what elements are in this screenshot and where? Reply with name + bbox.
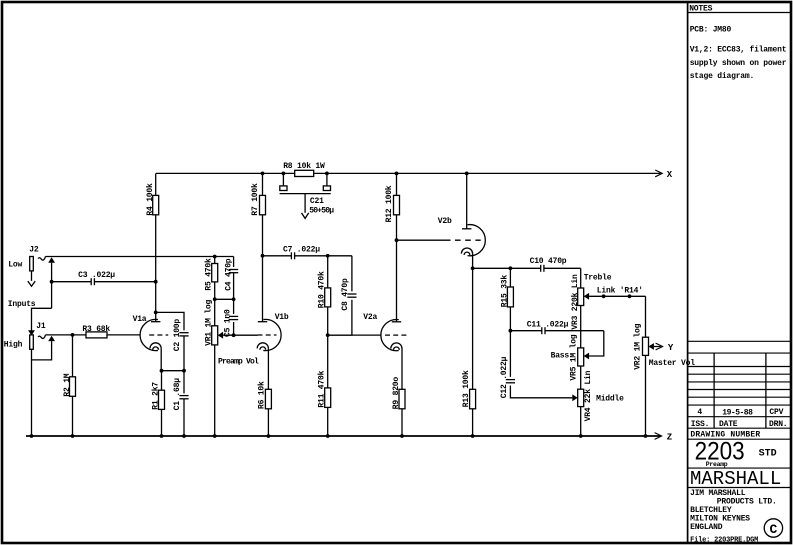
svg-text:VR5 1M log: VR5 1M log (570, 334, 579, 380)
node X supply rail wire (156, 172, 661, 174)
node C21 tap junctions (282, 172, 329, 176)
svg-text:Bass: Bass (551, 352, 570, 361)
wire R15 top (509, 268, 511, 287)
wire C4 bottom (233, 273, 235, 299)
triode V1a (140, 319, 168, 350)
jack J2 tip contact (38, 257, 45, 261)
notes panel separator (687, 2, 689, 543)
node C7 junction (261, 254, 265, 258)
wire VR3 wiper to VR2 (645, 296, 647, 337)
svg-text:V2b: V2b (438, 217, 452, 226)
svg-text:R2 1M: R2 1M (63, 373, 72, 396)
svg-text:R5 470k: R5 470k (205, 258, 214, 291)
jack J2 label (29, 245, 39, 254)
CPV cell (769, 408, 783, 417)
Preamp label (706, 461, 728, 468)
capacitor C3 (52, 271, 156, 285)
capacitor C21 plate (280, 193, 331, 195)
capacitor C11 (510, 320, 603, 334)
resistor R5 (205, 258, 218, 291)
node X arrow (655, 170, 662, 177)
svg-text:MARSHALL: MARSHALL (690, 468, 781, 490)
capacitor C12 (500, 356, 515, 398)
triode V2b (455, 225, 485, 256)
capacitor C2 (173, 319, 188, 352)
resistor R12 (385, 185, 400, 222)
wire V1a cathode (160, 348, 162, 370)
svg-text:VR1 1M log: VR1 1M log (205, 299, 214, 345)
wire cathode to C1 (162, 369, 186, 373)
wire V1b cathode (267, 348, 269, 389)
node C7/R10/C8 junction (326, 254, 330, 258)
wire R12 to V2a anode (396, 215, 398, 322)
capacitor C7 (263, 246, 328, 260)
potentiometer VR4 wiper (572, 394, 577, 401)
node Y wire (654, 346, 661, 348)
resistor R8 (283, 162, 325, 177)
node Z label (667, 433, 672, 443)
svg-text:Treble: Treble (584, 273, 612, 282)
svg-text:R11 470k: R11 470k (318, 370, 327, 407)
ISS label (691, 420, 709, 429)
wire V2b cathode (472, 254, 474, 390)
wire R10 top (327, 256, 329, 288)
node R2 ground junction (71, 434, 75, 438)
svg-text:High: High (4, 341, 23, 350)
jack J2 Low label (8, 261, 22, 270)
svg-text:supply shown on power: supply shown on power (690, 59, 787, 68)
svg-text:R9 820o: R9 820o (392, 377, 401, 410)
triode V1a label (133, 315, 147, 324)
svg-text:Link: Link (597, 286, 616, 295)
Bass label (551, 352, 570, 361)
svg-text:4: 4 (697, 408, 702, 417)
svg-text:C11 .022µ: C11 .022µ (527, 320, 569, 329)
wire to V2a grid (328, 334, 381, 336)
wire VR2 bottom (644, 355, 648, 438)
svg-text:Preamp Vol: Preamp Vol (218, 357, 259, 366)
svg-text:R12 100k: R12 100k (385, 185, 394, 222)
svg-text:R6 10k: R6 10k (258, 381, 267, 409)
svg-text:stage diagram.: stage diagram. (690, 72, 754, 81)
wire J2 tip to R5/C4 (45, 256, 233, 258)
jack J2 switch contact arrow (48, 257, 55, 262)
capacitor C8 (341, 278, 357, 311)
resistor R15 (500, 275, 513, 308)
wire R11 top (327, 335, 329, 388)
node J1 ground junction (30, 434, 34, 438)
svg-text:C1 .68µ: C1 .68µ (173, 378, 182, 411)
Master Vol label (649, 359, 695, 368)
svg-text:V1,2: ECC83, filament: V1,2: ECC83, filament (690, 46, 787, 55)
svg-text:Low: Low (8, 261, 22, 270)
node X label (667, 170, 673, 180)
wire R15 bottom (509, 307, 511, 331)
svg-text:DATE: DATE (719, 420, 738, 429)
wire C8 top (328, 256, 352, 292)
potentiometer VR4 (578, 370, 594, 421)
resistor R4 (146, 183, 159, 216)
jack J1 label (36, 322, 46, 331)
triode V2b label (438, 217, 452, 226)
node R15 top junction (509, 266, 513, 270)
potentiometer VR1 (205, 299, 218, 345)
note PCB (690, 26, 732, 35)
node Y label (668, 343, 674, 353)
copyright symbol (764, 519, 782, 537)
node cathode/tone junction (471, 266, 475, 270)
svg-text:R3 68k: R3 68k (82, 325, 110, 334)
wire C2 branch (156, 312, 184, 330)
wire jog to J1 (32, 308, 52, 331)
node R15/C11/C12 junction (509, 329, 513, 333)
triode V2a label (363, 313, 377, 322)
svg-text:C21: C21 (310, 197, 324, 206)
wire VR3 wiper link R14 (589, 295, 645, 297)
svg-text:C10 470p: C10 470p (530, 257, 567, 266)
svg-text:PCB: JM80: PCB: JM80 (690, 26, 732, 35)
potentiometer VR2 (633, 323, 648, 369)
resistor R3 (82, 325, 110, 338)
capacitor C4 (224, 258, 238, 291)
wire C21 right tap (326, 173, 328, 186)
title block row lines (688, 341, 792, 487)
capacitor C5 (224, 309, 239, 337)
resistor R1 (151, 382, 164, 410)
wire C5 top (233, 299, 235, 314)
DRN label (769, 420, 787, 429)
node C3 to anode junction (154, 280, 158, 284)
node cathode junction V1a (160, 369, 164, 373)
STD label (759, 449, 777, 460)
wire VR1 bottom (213, 345, 217, 438)
address PRODUCTS LTD (717, 497, 777, 506)
address BLETCHLEY (690, 506, 732, 515)
jack J2 (28, 257, 35, 287)
address JIM MARSHALL (690, 489, 746, 498)
wire VR3 top (580, 268, 582, 288)
node R2 junction (71, 333, 75, 337)
date cell (722, 408, 753, 417)
drawing number 2203 (695, 438, 745, 466)
wire R9 bottom (400, 409, 404, 438)
svg-text:C5 1n0: C5 1n0 (224, 309, 233, 337)
potentiometer VR5 wiper (584, 353, 589, 360)
wire VR1 wiper to V1b grid (223, 334, 258, 336)
wire C4 corner (233, 257, 235, 268)
svg-text:19-5-88: 19-5-88 (722, 408, 753, 417)
node R10/C8/grid junction (326, 333, 330, 337)
wire cathode to C10/VR3 (473, 267, 581, 269)
svg-text:C7 .022µ: C7 .022µ (283, 246, 320, 255)
capacitor C21 value label (309, 197, 334, 216)
wire R1 bottom (160, 409, 164, 438)
issue number cell (697, 408, 702, 417)
node V2b anode rail junction (465, 172, 469, 176)
wire R13 bottom (471, 409, 475, 438)
wire R12 top (396, 173, 398, 195)
wire J2 switch down (51, 263, 53, 309)
Inputs label (8, 300, 36, 309)
svg-text:C2 100p: C2 100p (173, 319, 182, 352)
wire R7 top (262, 173, 264, 195)
svg-text:C: C (769, 522, 777, 537)
svg-text:R4 100k: R4 100k (146, 183, 155, 216)
svg-text:Inputs: Inputs (8, 300, 36, 309)
wire J1 tip to R3 (45, 334, 86, 336)
wire R5 to C4 bottom (215, 298, 234, 300)
resistor R10 (318, 271, 331, 308)
DATE label (719, 420, 738, 429)
svg-text:VR4 22k Lin: VR4 22k Lin (584, 370, 593, 421)
potentiometer VR2 wiper (649, 343, 654, 350)
svg-text:VR3 220k Lin: VR3 220k Lin (571, 274, 580, 330)
address ENGLAND (690, 523, 723, 532)
capacitor C21 terminal pads (280, 186, 331, 191)
wire V2b grid (397, 239, 451, 241)
svg-text:'R14': 'R14' (620, 286, 643, 295)
node Z ground rail wire (26, 435, 660, 437)
note filament line1 (690, 46, 787, 55)
wire V2b anode (466, 173, 468, 228)
wire C2 bottom (183, 336, 185, 371)
wire C1 bottom (182, 399, 186, 438)
node link R14 right (628, 294, 632, 298)
triode V1b label (275, 313, 289, 322)
wire R1 top (161, 371, 163, 391)
svg-text:ENGLAND: ENGLAND (690, 523, 723, 532)
svg-text:C12 .022µ: C12 .022µ (500, 356, 509, 398)
wire VR3 bottom to VR5 (580, 306, 582, 348)
svg-text:R1 2k7: R1 2k7 (151, 382, 160, 410)
Middle label (596, 394, 624, 403)
wire arrow onto J1 (28, 330, 35, 335)
svg-text:Middle: Middle (596, 394, 624, 403)
svg-text:J2: J2 (29, 245, 39, 254)
wire R3 to V1a grid (107, 334, 140, 336)
svg-text:R8 10k 1W: R8 10k 1W (283, 162, 325, 171)
resistor R7 (251, 183, 266, 216)
jack J1 switch contact arrow (48, 336, 55, 341)
node Z arrow (655, 433, 662, 440)
svg-text:R10 470k: R10 470k (318, 271, 327, 308)
svg-text:DRN.: DRN. (769, 420, 787, 429)
potentiometer VR3 (571, 274, 584, 330)
wire C12 top (509, 331, 511, 377)
svg-text:File: 2203PRE.DGM: File: 2203PRE.DGM (690, 537, 758, 545)
svg-text:STD: STD (759, 449, 777, 460)
resistor R6 (258, 381, 272, 409)
wire R6 bottom (267, 409, 271, 438)
wire C12 to VR4 wiper (510, 386, 572, 398)
wire V2a cathode (401, 349, 403, 390)
svg-text:50+50µ: 50+50µ (309, 206, 334, 215)
wire R2 top (72, 335, 74, 377)
svg-text:CPV: CPV (769, 408, 783, 417)
node C3 junction (50, 280, 54, 284)
wire R5 top (214, 257, 216, 264)
jack J1 (30, 335, 34, 349)
title block column lines (714, 353, 766, 428)
node V2b grid junction (395, 238, 399, 242)
wire R10 bottom (327, 307, 329, 335)
resistor R2 (63, 373, 76, 396)
DRAWING NUMBER label (690, 431, 760, 440)
wire VR4 bottom (579, 407, 583, 438)
node Y arrow (656, 343, 663, 350)
triode V1b (257, 319, 281, 350)
resistor R13 (462, 370, 475, 409)
svg-text:R7 100k: R7 100k (251, 183, 260, 216)
jack J1 High label (4, 341, 23, 350)
capacitor C1 (173, 378, 188, 411)
node link R14 left (602, 294, 606, 298)
svg-text:ISS.: ISS. (691, 420, 709, 429)
resistor R11 (318, 370, 331, 407)
node R5/C4 bottom junction (213, 297, 236, 301)
svg-text:C4 470p: C4 470p (224, 258, 233, 291)
node C2 branch junction (154, 311, 158, 315)
svg-text:Preamp: Preamp (706, 461, 728, 468)
potentiometer VR3 wiper (584, 293, 589, 300)
wire VR5 bottom to VR4 (580, 366, 582, 389)
wire C5 bottom (233, 322, 235, 335)
potentiometer VR5 (570, 334, 584, 380)
wire C1 top (183, 371, 185, 394)
svg-text:Y: Y (668, 343, 674, 353)
svg-text:C8 470p: C8 470p (341, 278, 350, 311)
wire R2 bottom (72, 396, 74, 436)
NOTES title (689, 5, 712, 14)
note filament line3 (690, 72, 754, 81)
Preamp Vol label (218, 357, 259, 366)
svg-text:V2a: V2a (363, 313, 377, 322)
svg-text:V1a: V1a (133, 315, 147, 324)
potentiometer VR1 wiper (218, 332, 223, 339)
svg-text:VR2 1M log: VR2 1M log (633, 323, 642, 369)
wire C11 to VR5 wiper (589, 331, 604, 356)
triode V2a (381, 320, 409, 351)
resistor R9 (392, 377, 405, 410)
MARSHALL logo (690, 468, 781, 490)
wire R4 top (155, 173, 157, 195)
jack J1 tip contact (38, 335, 45, 339)
svg-text:R13 100k: R13 100k (462, 370, 471, 407)
node R12 rail junction (395, 172, 399, 176)
wire R7 to V1b anode (262, 215, 264, 322)
note filament line2 (690, 59, 787, 68)
NOTES underline (688, 12, 791, 14)
wire C8 bottom (328, 300, 352, 335)
wire C21 left tap (282, 173, 284, 186)
node R7 rail junction (261, 172, 265, 176)
capacitor C10 (530, 257, 567, 272)
ground arrow below C21 (302, 194, 309, 219)
svg-text:R15 33k: R15 33k (500, 275, 509, 308)
svg-text:C3 .022µ: C3 .022µ (78, 271, 115, 280)
Link R14 label (597, 286, 643, 295)
address MILTON KEYNES (690, 515, 750, 524)
wire J1 sleeve to ground rail (31, 349, 33, 436)
file name label (690, 537, 758, 545)
svg-text:Z: Z (667, 433, 672, 443)
wire R4 to V1a anode (155, 215, 157, 322)
svg-text:V1b: V1b (275, 313, 289, 322)
wire R11 bottom (326, 407, 330, 438)
svg-text:X: X (667, 170, 673, 180)
node C5/wiper junction (232, 333, 236, 337)
Treble label (584, 273, 612, 282)
svg-text:J1: J1 (36, 322, 46, 331)
wire J1 switch to sleeve (32, 341, 52, 360)
wire R5 bottom (214, 282, 216, 326)
node R5 top junction (213, 255, 217, 259)
